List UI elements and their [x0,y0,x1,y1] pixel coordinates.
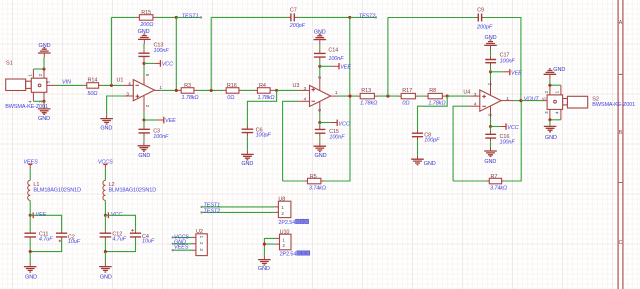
pin 5 U1 [143,63,145,75]
svg-text:R15: R15 [141,10,151,16]
svg-text:R8: R8 [429,88,436,94]
svg-text:VEE: VEE [165,118,176,124]
wire S1 top pins bridge [33,68,44,70]
svg-text:U1: U1 [117,78,124,84]
junction S2 top [548,84,551,87]
wire C8 to GND [417,140,419,155]
svg-text:VEES: VEES [174,245,189,251]
inductor L2 BLM18AG102SN1D [103,180,156,200]
ground C17 (flipped) [484,35,497,50]
svg-text:200pF: 200pF [289,23,306,29]
junction U3 plus input node [275,89,278,92]
pin 1 U1 [155,89,162,91]
junction S1 top [42,67,45,70]
wire node to U3 pin3 [277,89,299,91]
svg-text:1.78kΩ: 1.78kΩ [257,95,274,101]
resistor R7 3.74k [486,174,507,192]
power flag VCC U3 [320,120,350,128]
svg-text:R17: R17 [402,88,412,94]
junction TEST2 node [348,16,351,19]
wire U2 pin1 VCCS [173,236,192,238]
sheet border right [618,0,624,289]
svg-text:4.7uF: 4.7uF [112,237,126,243]
wire to R15 [111,16,135,18]
wire C13 to GND [143,44,145,50]
wire S1 top to GND [43,58,45,70]
svg-text:100pF: 100pF [424,138,440,144]
svg-text:VCC: VCC [338,122,349,128]
pin 3 U3 [298,89,309,91]
junction VIN node [110,84,113,87]
wire C9 loop left vertical [387,18,389,97]
svg-text:R4: R4 [259,83,266,89]
wire C9 loop top [388,17,477,19]
svg-text:GND: GND [100,126,112,132]
capacitor C2 10uF [56,232,81,245]
wire C15 to GND [319,137,321,142]
pin 4 U4 [469,105,480,107]
capacitor C9 200pF [476,8,493,31]
svg-text:GND: GND [25,274,37,280]
resistor R4 1.78k [254,83,275,101]
junction S2 bottom [548,118,551,121]
capacitor C13 100nF [138,43,169,64]
ground C8 [411,155,436,167]
junction U1 VCC node [142,62,145,65]
wire TEST1 to U8 [202,206,275,208]
svg-text:0Ω: 0Ω [227,95,234,101]
wire end dot TEST2 [375,16,377,18]
wire C12 to bottom rail [104,239,106,252]
wire C7 to TEST2 node [298,16,350,18]
wire S1 bottom pins bridge [33,100,44,102]
wire VCC branch top [105,215,135,232]
svg-text:GND: GND [138,153,150,159]
ground VCC rail [99,262,112,280]
wire R16 to R4 [242,89,254,91]
svg-text:GND: GND [39,43,51,49]
op-amp U4 [463,90,501,112]
svg-text:GND: GND [424,161,436,167]
capacitor C12 4.7uF [100,232,127,243]
resistor R17 0R [398,88,418,106]
wire R14 to U1 [102,84,122,86]
junction C7 loop node [210,89,213,92]
svg-text:R7: R7 [490,174,497,180]
ground U1 pin3 [100,115,113,132]
ground C15 [314,142,327,159]
svg-text:VCC: VCC [162,62,173,68]
svg-text:C7: C7 [290,7,297,13]
svg-text:2P2.54: 2P2.54 [278,220,295,226]
wire R4 to U3 node [274,89,277,91]
wire U1 output [161,89,178,91]
junction VCC rail bottom [104,250,107,253]
svg-text:U10: U10 [280,230,290,236]
svg-text:100nF: 100nF [500,140,516,146]
wire VEE branch top [30,215,61,232]
wire feedback bottom to R5 [283,180,305,182]
svg-text:100nF: 100nF [329,134,345,140]
wire C7 loop vertical left [210,17,212,90]
resistor R15 200R [136,10,157,28]
pin 4 U1 [122,84,133,86]
power flag VEE U4 [491,69,523,76]
pin 3 U4 [469,95,480,97]
svg-text:GND: GND [553,67,565,73]
svg-text:U3: U3 [293,83,300,89]
resistor R8 1.78k [425,88,445,106]
pin 5 U3 [319,101,321,113]
junction VOUT node [519,99,522,102]
wire U1 pin3 to GND [107,96,124,115]
wire R17 to R8 [418,95,425,97]
wire C16 to GND [490,142,492,147]
wire C11 to bottom rail [29,239,31,252]
junction U1 output [175,89,178,92]
wire S2 top to GND [549,79,551,85]
svg-text:C: C [619,240,623,246]
wire S2 bottom to GND [549,120,551,126]
svg-text:100nF: 100nF [153,134,169,140]
capacitor C16 100nF [485,127,515,146]
resistor R14 50R [83,77,102,97]
wire VCCS to L2 [104,168,106,180]
capacitor C3 100nF [139,120,170,140]
resistor R13 1.78k [357,88,378,106]
wire U2 pin3 VEES [173,249,192,251]
svg-text:A: A [619,20,623,26]
connector U8 [274,197,291,218]
svg-text:BLM18AG102SN1D: BLM18AG102SN1D [33,188,81,194]
wire C8 branch [418,96,448,129]
power flag VCC U4 [491,123,519,131]
power flag VCCS rail [98,159,113,168]
svg-text:C14: C14 [328,48,338,54]
ground U10 [258,255,271,272]
svg-text:1.78kΩ: 1.78kΩ [360,100,377,106]
power flag VEE rail [30,212,46,218]
svg-text:GND: GND [241,161,253,167]
op-amp U3 [293,83,331,107]
wire VIN [55,84,83,86]
ground S2 bottom [544,126,557,141]
svg-text:S1: S1 [6,60,13,66]
junction U4 plus input node [446,95,449,98]
junction S1 bottom [42,100,45,103]
svg-text:VEE: VEE [511,71,522,77]
junction TEST1 node [175,16,178,19]
svg-text:VOUT: VOUT [524,96,540,102]
ground C16 [484,147,497,165]
connector S2 BWSMA-KE-Z001 [542,85,588,120]
wire C7 loop top left [211,16,287,18]
part name 2P2.54 header U10 [280,251,310,258]
power flag VCC U1 [144,60,173,67]
wire S2 top bridge [550,84,561,86]
svg-text:BWSMA-KE-Z001: BWSMA-KE-Z001 [592,102,635,108]
wire VEES to L1 [29,168,31,180]
wire U2 pin2 GND [173,243,192,245]
svg-text:GND: GND [38,116,50,122]
capacitor C15 100nF [315,123,345,141]
wire node to U4 pin3 [447,95,468,97]
svg-text:100nF: 100nF [500,58,516,64]
svg-text:VEE: VEE [340,65,351,71]
wire C3 to GND [143,137,145,142]
ground VEE rail [24,262,37,280]
wire U4 pin4 feedback [453,106,469,181]
svg-text:100nF: 100nF [154,48,170,54]
wire R8 to U4 node [445,95,447,97]
wire feedback to R7 [453,180,486,182]
svg-text:R3: R3 [184,83,191,89]
capacitor C4 10uF [130,229,155,245]
wire C14 to GND [319,45,321,50]
svg-text:GND: GND [258,266,270,272]
svg-text:R16: R16 [227,83,237,89]
connector U2 [192,229,207,255]
wire TEST2 stub [350,16,376,18]
pin 5 U4 [490,106,492,118]
svg-text:50Ω: 50Ω [87,91,97,97]
wire C9 to VOUT vertical [484,18,521,101]
ground S2 top (flipped) [544,67,566,79]
ground C13 (flipped) [138,29,151,44]
svg-text:TEST2: TEST2 [359,13,376,19]
wire U3 pin4 to feedback [283,101,299,181]
capacitor C6 100pF [242,126,272,139]
svg-text:3.74kΩ: 3.74kΩ [309,186,326,192]
power flag VEES rail [23,159,38,168]
svg-text:R5: R5 [310,174,317,180]
wire U10 pins to GND [264,238,275,255]
wire C4 to bottom rail [105,239,135,252]
svg-text:100nF: 100nF [328,56,344,62]
resistor R16 0R [223,83,243,101]
wire VEE node to C11 [29,215,31,231]
capacitor C7 200pF [287,7,305,29]
junction U3 VEE node [318,65,321,68]
pin 1 U4 [501,100,513,102]
wire L1 to VEE node [29,200,31,215]
wire S2 bottom bridge [550,119,561,121]
capacitor C11 4.7uF [24,232,53,243]
wire C6 branch from plus node [247,90,276,126]
wire U4 output [513,100,521,102]
svg-text:U8: U8 [278,197,285,203]
svg-text:10uF: 10uF [68,239,81,245]
wire feedback left vertical [110,17,112,85]
svg-text:1.78kΩ: 1.78kΩ [181,95,198,101]
connector U10 [275,230,291,250]
svg-text:GND: GND [484,159,496,165]
wire TEST2 to U8 [202,211,275,213]
wire R7 to VOUT vertical [505,101,522,181]
ground C6 [241,151,254,167]
wire VCC node to C12 [104,215,106,231]
pin 4 U3 [298,100,309,102]
svg-text:4.7uF: 4.7uF [39,237,53,243]
svg-text:TEST1: TEST1 [182,14,199,20]
junction U1 VEE node [142,118,145,121]
op-amp U1 [117,78,155,101]
svg-text:B: B [619,130,623,136]
svg-text:U2: U2 [196,229,203,235]
capacitor C14 100nF [314,48,344,67]
wire to GND rail2 [104,252,106,262]
junction VEE rail node [29,214,32,217]
wire C7 loop right vertical [349,17,351,96]
svg-text:BLM18AG102SN1D: BLM18AG102SN1D [109,188,157,194]
wire feedback right vertical to output [175,17,177,90]
inductor L1 BLM18AG102SN1D [28,180,81,200]
junction U4 VEE node [489,70,492,73]
ground C3 [138,142,151,159]
connector S1 BWSMA-KE-Z001 [6,69,56,103]
junction C9 loop node [386,95,389,98]
wire R13 to C9 node [378,95,399,97]
svg-text:GND: GND [100,274,112,280]
ground S1 bottom [38,105,51,122]
power flag VEE U1 [144,117,176,124]
wire R15 to TEST1 node [157,16,177,18]
wire S1 bottom to GND [43,101,45,105]
svg-text:200Ω: 200Ω [139,22,153,28]
svg-text:GND: GND [545,135,557,141]
ground C14 (flipped) [314,29,327,45]
junction U4 VCC node [489,125,492,128]
wire R3 to R16 [197,89,223,91]
wire VOUT to S2 [521,100,543,102]
svg-text:R13: R13 [361,88,371,94]
svg-text:VIN: VIN [62,80,71,86]
pin 2 U1 [143,95,145,112]
svg-text:100pF: 100pF [256,133,272,139]
junction U10 [263,243,266,246]
pin 1 U3 [331,95,338,97]
svg-text:GND: GND [314,29,326,35]
capacitor C17 100nF [485,53,515,72]
wire R5 to output vertical [324,96,350,181]
wire C6 to GND [246,136,248,150]
pin 3 U1 [123,95,133,97]
pin 2 U4 [490,72,492,81]
wire U3 output [338,95,357,97]
svg-text:VCC: VCC [507,125,518,131]
resistor R5 3.74k [304,174,326,192]
svg-text:R14: R14 [88,77,98,83]
wire C17 to GND [490,50,492,56]
ground S1 top (flipped) [38,43,51,57]
svg-text:C9: C9 [477,8,484,14]
part name 2P2.54 header U8 [278,219,308,226]
junction U3 VCC node [318,121,321,124]
svg-text:3.74kΩ: 3.74kΩ [490,186,507,192]
power flag VEE U3 [320,63,352,71]
power flag VCC rail [105,212,122,218]
svg-text:TEST2: TEST2 [204,208,221,214]
svg-text:U4: U4 [463,90,470,96]
junction VCC rail node [104,214,107,217]
junction U3 output node [348,95,351,98]
pin 2 U3 [319,66,321,77]
wire to GND rail1 [29,252,31,262]
capacitor C8 100pF [412,130,440,144]
resistor R3 1.78k [178,83,198,101]
wire end dot TEST1 [200,16,202,18]
wire U1 out to R3 [177,89,179,91]
svg-text:200pF: 200pF [476,25,493,31]
svg-text:GND: GND [315,153,327,159]
junction VEE rail bottom [29,250,32,253]
wire L2 to VCC node [104,200,106,215]
svg-text:GND: GND [485,35,497,41]
svg-text:1.78kΩ: 1.78kΩ [428,100,445,106]
svg-text:2P2.54: 2P2.54 [280,251,297,257]
wire TEST1 stub [176,16,201,18]
svg-text:10uF: 10uF [142,239,155,245]
wire C2 to bottom rail [30,239,61,252]
svg-text:GND: GND [138,29,150,35]
svg-text:0Ω: 0Ω [402,100,409,106]
